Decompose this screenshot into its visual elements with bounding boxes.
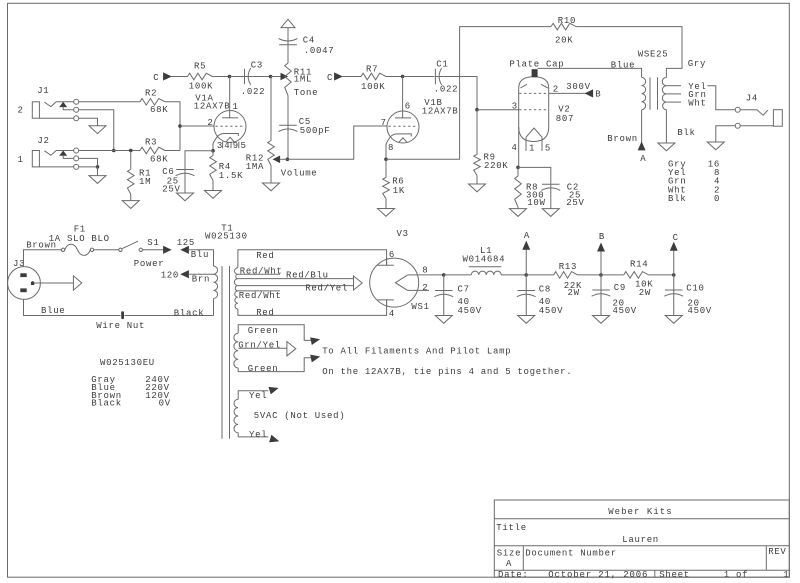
svg-text:1: 1 — [529, 144, 535, 154]
wire Grn tap — [666, 90, 706, 100]
wire — [525, 298, 527, 315]
ground — [658, 143, 675, 151]
node V2 cathode — [516, 166, 520, 170]
svg-text:807: 807 — [556, 114, 574, 124]
svg-text:C1: C1 — [436, 60, 448, 70]
svg-text:1 of: 1 of — [724, 570, 748, 580]
wire — [287, 45, 289, 63]
svg-text:A: A — [524, 231, 530, 241]
wire — [213, 142, 214, 151]
wire — [79, 110, 114, 151]
node volume wiper junction — [286, 158, 290, 162]
node C (B+ feed to R5) — [153, 73, 170, 83]
fuse F1 — [49, 225, 110, 256]
tube V3 WS1 — [370, 229, 430, 319]
svg-text:B: B — [599, 232, 605, 242]
wire — [24, 299, 121, 315]
svg-text:Black: Black — [91, 399, 122, 409]
svg-text:2: 2 — [18, 105, 24, 115]
transformer T1 filament coil — [234, 333, 238, 368]
svg-text:1K: 1K — [393, 186, 405, 196]
arrow filament feed 2 — [311, 355, 319, 361]
wire — [165, 102, 180, 151]
wire — [673, 275, 675, 290]
svg-text:Brown: Brown — [607, 134, 638, 144]
svg-text:Volume: Volume — [281, 168, 318, 178]
wire — [238, 250, 387, 268]
resistor R14 — [624, 260, 654, 298]
svg-text:C8: C8 — [539, 285, 551, 295]
wire — [287, 126, 387, 159]
svg-text:450V: 450V — [613, 306, 637, 316]
wire — [253, 76, 271, 78]
svg-text:Wire Nut: Wire Nut — [96, 321, 145, 331]
note filaments — [322, 346, 511, 356]
svg-text:J1: J1 — [37, 86, 49, 96]
svg-text:J2: J2 — [37, 136, 49, 146]
node V2 grid / R9 top — [475, 108, 479, 112]
wire — [707, 86, 735, 110]
svg-text:R14: R14 — [630, 260, 648, 270]
svg-text:C3: C3 — [251, 60, 263, 70]
svg-text:V2: V2 — [558, 104, 570, 114]
transformer WSE25 secondary coil — [662, 77, 666, 109]
wire — [443, 275, 445, 290]
ground — [518, 316, 535, 324]
svg-text:Gry: Gry — [688, 59, 706, 69]
svg-text:100K: 100K — [361, 82, 385, 92]
wire — [386, 76, 403, 78]
wire — [280, 158, 288, 160]
wire — [238, 358, 311, 372]
wire — [125, 315, 214, 317]
ground — [177, 193, 194, 201]
arrow Brn lead — [161, 270, 210, 284]
capacitor C9 — [592, 283, 637, 316]
wire — [385, 159, 387, 177]
wire — [238, 325, 311, 341]
wire — [180, 125, 214, 127]
resistor R13 — [554, 262, 582, 298]
svg-text:.022: .022 — [241, 87, 265, 97]
svg-text:300V: 300V — [566, 82, 590, 92]
svg-text:C: C — [153, 73, 159, 83]
table W025130EU — [91, 358, 171, 409]
jack J4 — [735, 94, 782, 129]
wire — [518, 167, 551, 184]
wire Yel tap — [666, 82, 706, 92]
wire — [386, 27, 551, 160]
wire — [213, 76, 230, 78]
ground — [707, 142, 724, 150]
net label Blk — [677, 128, 695, 138]
svg-text:8: 8 — [388, 143, 394, 153]
svg-text:68K: 68K — [150, 154, 168, 164]
transformer T1 primary coil — [214, 266, 218, 298]
wire — [165, 150, 180, 152]
svg-text:220K: 220K — [484, 161, 508, 171]
svg-text:F1: F1 — [74, 225, 86, 235]
svg-text:A: A — [506, 559, 512, 569]
capacitor C4 — [279, 35, 335, 56]
svg-text:12AX7B: 12AX7B — [194, 102, 231, 112]
svg-text:Red/Wht: Red/Wht — [239, 291, 282, 301]
wire Red/Yel — [238, 283, 354, 293]
svg-text:Lauren: Lauren — [622, 535, 659, 545]
node A (filter) — [523, 231, 530, 277]
net label Green top — [248, 326, 279, 336]
wire — [386, 142, 387, 159]
wire — [287, 133, 289, 159]
svg-text:8: 8 — [422, 265, 428, 275]
svg-text:C9: C9 — [614, 283, 626, 293]
ground — [510, 209, 527, 217]
wire — [600, 298, 602, 316]
wire — [716, 126, 735, 142]
wire — [501, 274, 526, 276]
wire — [385, 199, 387, 209]
ground — [665, 316, 682, 324]
node V1A cathode — [211, 149, 215, 153]
wire — [212, 151, 214, 156]
svg-text:1ML: 1ML — [294, 75, 312, 85]
svg-text:Green: Green — [248, 326, 279, 336]
note 12AX7B pins — [322, 367, 572, 377]
node V1A plate — [228, 75, 232, 79]
wire — [213, 299, 215, 316]
svg-text:5: 5 — [545, 144, 551, 154]
net label Black — [174, 309, 205, 319]
svg-text:W025130: W025130 — [205, 232, 248, 242]
svg-text:C: C — [327, 73, 333, 83]
transformer WSE25 label — [611, 49, 706, 70]
transformer T1 HV secondary coil — [234, 268, 238, 309]
arrow switch to 125 tap — [164, 238, 195, 253]
svg-text:R13: R13 — [559, 262, 577, 272]
wire — [238, 391, 268, 399]
svg-text:October 21, 2006: October 21, 2006 — [548, 570, 648, 580]
svg-text:68K: 68K — [150, 105, 168, 115]
svg-text:On the 12AX7B, tie pins 4 and: On the 12AX7B, tie pins 4 and 5 together… — [322, 367, 572, 377]
wire — [79, 118, 98, 126]
node C (filter) — [671, 233, 679, 277]
transformer T1 5V coil — [234, 399, 238, 433]
tube V1A 12AX7B — [194, 77, 247, 151]
capacitor C8 — [517, 285, 563, 316]
resistor R1 — [127, 168, 151, 194]
capacitor C1 — [434, 60, 458, 95]
ground — [89, 176, 106, 184]
chassis arrow from J3 — [73, 276, 81, 290]
wire — [601, 274, 624, 276]
svg-text:5: 5 — [241, 141, 247, 151]
wire — [649, 274, 674, 276]
arrow Yel top — [269, 387, 277, 393]
wire — [673, 298, 675, 316]
ground — [542, 209, 559, 217]
svg-text:A: A — [640, 154, 646, 164]
svg-text:500pF: 500pF — [300, 126, 331, 136]
transformer T1 core — [222, 266, 230, 439]
wire — [79, 158, 98, 167]
svg-text:W025130EU: W025130EU — [100, 358, 155, 368]
ground — [263, 183, 280, 191]
wire — [549, 92, 586, 94]
tube V2 807 — [512, 77, 575, 154]
resistor R8 — [515, 176, 546, 208]
wire nut junction — [96, 311, 145, 331]
wire — [517, 167, 519, 176]
net label Red top — [256, 251, 274, 261]
svg-text:C: C — [673, 233, 679, 243]
svg-text:2: 2 — [422, 283, 428, 293]
wire — [34, 282, 73, 284]
wire — [185, 151, 213, 169]
svg-text:Power: Power — [134, 259, 165, 269]
svg-text:Red/Yel: Red/Yel — [305, 283, 348, 293]
node B (300V screen) — [566, 82, 601, 100]
wire — [238, 433, 268, 437]
svg-text:4: 4 — [389, 309, 395, 319]
svg-text:Yel: Yel — [249, 391, 267, 401]
plate cap of V2 — [509, 60, 564, 78]
svg-text:Title: Title — [496, 523, 527, 533]
wire — [143, 249, 164, 251]
svg-text:450V: 450V — [539, 306, 563, 316]
svg-text:1M: 1M — [139, 177, 151, 187]
wire — [188, 250, 213, 266]
net label Yel bottom — [249, 430, 267, 440]
wire — [287, 28, 289, 42]
node J1-J2 link — [112, 149, 116, 153]
svg-text:6: 6 — [405, 101, 411, 111]
svg-text:Red/Blu: Red/Blu — [286, 271, 329, 281]
node C (B+ feed to R7) — [327, 73, 342, 83]
svg-text:1MA: 1MA — [246, 162, 264, 172]
potentiometer R11 — [285, 63, 319, 98]
wire — [94, 249, 119, 251]
wire — [24, 250, 63, 267]
potentiometer R11 wiper arrow — [281, 74, 287, 80]
capacitor C10 — [664, 283, 712, 316]
resistor R9 — [474, 152, 509, 175]
wire — [444, 77, 477, 110]
note 5VAC — [254, 411, 346, 421]
svg-text:C7: C7 — [458, 285, 470, 295]
arrow Grn/Yel — [287, 342, 296, 356]
wire — [403, 76, 435, 78]
ground — [469, 184, 486, 192]
wire — [79, 166, 98, 168]
capacitor C3 — [241, 60, 265, 97]
svg-text:120: 120 — [161, 270, 179, 280]
svg-text:Document Number: Document Number — [525, 548, 617, 558]
wire — [444, 274, 472, 276]
node V1B cathode — [384, 158, 388, 162]
ground — [122, 201, 139, 209]
wire — [517, 207, 519, 209]
resistor R4 — [210, 156, 244, 181]
svg-text:Red/Wht: Red/Wht — [240, 266, 283, 276]
svg-text:V3: V3 — [397, 229, 409, 239]
wire — [665, 110, 667, 143]
wire — [526, 274, 554, 276]
wire Grn/Yel tap — [238, 340, 287, 350]
ground — [378, 209, 395, 217]
svg-text:Yel: Yel — [249, 430, 267, 440]
capacitor C6 — [162, 167, 194, 194]
svg-text:25V: 25V — [566, 198, 584, 208]
svg-text:1: 1 — [232, 102, 238, 112]
ground — [435, 316, 452, 324]
jack J1 — [18, 86, 79, 121]
wire Red/Wht tap 1 — [238, 266, 283, 276]
svg-text:12AX7B: 12AX7B — [422, 107, 459, 117]
power plug J3 — [8, 259, 41, 300]
resistor R7 — [361, 64, 386, 92]
svg-text:Blue: Blue — [41, 306, 65, 316]
wire — [270, 166, 272, 184]
wire — [476, 110, 478, 155]
resistor R3 — [140, 137, 168, 164]
wire — [443, 298, 445, 315]
svg-text:.0047: .0047 — [304, 46, 335, 56]
svg-text:2: 2 — [207, 118, 213, 128]
wire Red/Blu — [238, 271, 354, 281]
svg-text:S1: S1 — [147, 238, 159, 248]
net label Green bottom — [248, 364, 279, 374]
svg-text:3: 3 — [217, 141, 223, 151]
wire — [238, 300, 387, 316]
svg-text:6: 6 — [389, 250, 395, 260]
node R1 top — [129, 149, 133, 153]
svg-text:5VAC (Not Used): 5VAC (Not Used) — [254, 411, 346, 421]
wire — [188, 273, 213, 275]
svg-text:9: 9 — [233, 141, 239, 151]
svg-text:Tone: Tone — [294, 88, 318, 98]
arrow filament feed 1 — [311, 338, 319, 344]
transformer WSE25 primary coil — [642, 77, 646, 109]
node A (OT primary return) — [607, 134, 646, 164]
svg-text:Wht: Wht — [688, 98, 706, 108]
node C3 output — [269, 75, 273, 79]
arrow Blu lead — [181, 247, 209, 261]
switch S1 — [119, 238, 165, 269]
svg-text:Black: Black — [174, 309, 205, 319]
title block — [494, 500, 789, 580]
svg-text:125: 125 — [177, 238, 195, 248]
svg-text:R10: R10 — [558, 16, 576, 26]
wire — [270, 77, 272, 141]
node J2 shunt — [96, 165, 100, 169]
wire Wht tap — [666, 98, 706, 108]
svg-text:Blue: Blue — [611, 60, 635, 70]
wire — [287, 96, 289, 125]
svg-text:C10: C10 — [686, 283, 704, 293]
ground — [593, 316, 610, 324]
svg-text:1A SLO BLO: 1A SLO BLO — [49, 234, 110, 244]
svg-text:C4: C4 — [303, 35, 315, 45]
off-page arrow above C4 — [281, 19, 295, 27]
svg-text:2W: 2W — [568, 288, 580, 298]
node V1B plate — [401, 75, 405, 79]
svg-text:100K: 100K — [189, 81, 213, 91]
svg-text:Red: Red — [256, 251, 274, 261]
svg-text:WS1: WS1 — [411, 302, 429, 312]
wire — [230, 76, 245, 78]
svg-text:7: 7 — [381, 118, 387, 128]
wire — [550, 192, 552, 209]
svg-text:Blu: Blu — [191, 250, 209, 260]
wire — [271, 76, 281, 78]
svg-text:Green: Green — [248, 364, 279, 374]
svg-text:W014684: W014684 — [463, 255, 506, 265]
wire — [525, 275, 527, 290]
svg-text:4: 4 — [512, 143, 518, 153]
wire — [79, 101, 140, 103]
inductor L1 — [463, 246, 506, 275]
wire — [477, 109, 519, 111]
svg-text:1: 1 — [783, 570, 789, 580]
svg-text:2: 2 — [553, 84, 559, 94]
svg-text:0V: 0V — [159, 399, 171, 409]
tube V1B 12AX7B — [381, 77, 459, 154]
svg-text:Blk: Blk — [677, 128, 695, 138]
wire — [184, 177, 186, 193]
arrow Yel bottom — [270, 436, 278, 442]
svg-text:R2: R2 — [145, 88, 157, 98]
svg-text:Brn: Brn — [192, 275, 210, 285]
svg-text:To All Filaments And Pilot Lam: To All Filaments And Pilot Lamp — [322, 346, 511, 356]
svg-text:450V: 450V — [688, 306, 712, 316]
svg-text:R3: R3 — [145, 137, 157, 147]
net label Brown — [26, 241, 57, 251]
arrow rectifier filament feed — [354, 276, 363, 290]
capacitor C7 — [434, 285, 482, 316]
capacitor C2 — [541, 183, 584, 208]
node B (filter) — [598, 232, 605, 277]
svg-text:0: 0 — [714, 194, 720, 204]
svg-text:R6: R6 — [392, 176, 404, 186]
node V1A grid — [178, 124, 182, 128]
wire — [97, 167, 99, 176]
svg-text:Blk: Blk — [668, 194, 686, 204]
wire — [212, 181, 214, 191]
wire Red/Wht tap 2 — [238, 291, 282, 301]
wire — [600, 275, 602, 290]
svg-text:R7: R7 — [366, 64, 378, 74]
transformer T1 labels — [205, 223, 248, 241]
svg-text:450V: 450V — [458, 306, 482, 316]
svg-text:.022: .022 — [434, 85, 458, 95]
svg-text:Size: Size — [497, 548, 521, 558]
svg-text:2W: 2W — [639, 288, 651, 298]
wire — [576, 27, 682, 78]
svg-text:1.5K: 1.5K — [219, 171, 243, 181]
svg-text:WSE25: WSE25 — [638, 49, 669, 59]
svg-text:Red: Red — [256, 308, 274, 318]
resistor R2 — [140, 88, 168, 115]
wire — [342, 76, 361, 78]
ground — [205, 191, 222, 199]
svg-text:B: B — [595, 89, 601, 99]
wire — [79, 150, 140, 152]
node V3 output — [442, 273, 446, 277]
wire — [130, 194, 132, 200]
impedance table — [668, 160, 720, 204]
svg-text:J4: J4 — [746, 94, 758, 104]
net label Blue — [41, 306, 65, 316]
